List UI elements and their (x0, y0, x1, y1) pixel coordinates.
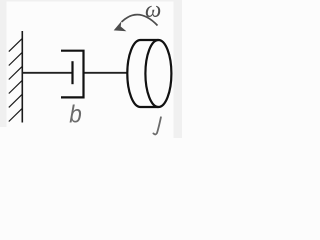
svg-text:b: b (69, 101, 82, 129)
svg-text:ω: ω (145, 0, 161, 22)
